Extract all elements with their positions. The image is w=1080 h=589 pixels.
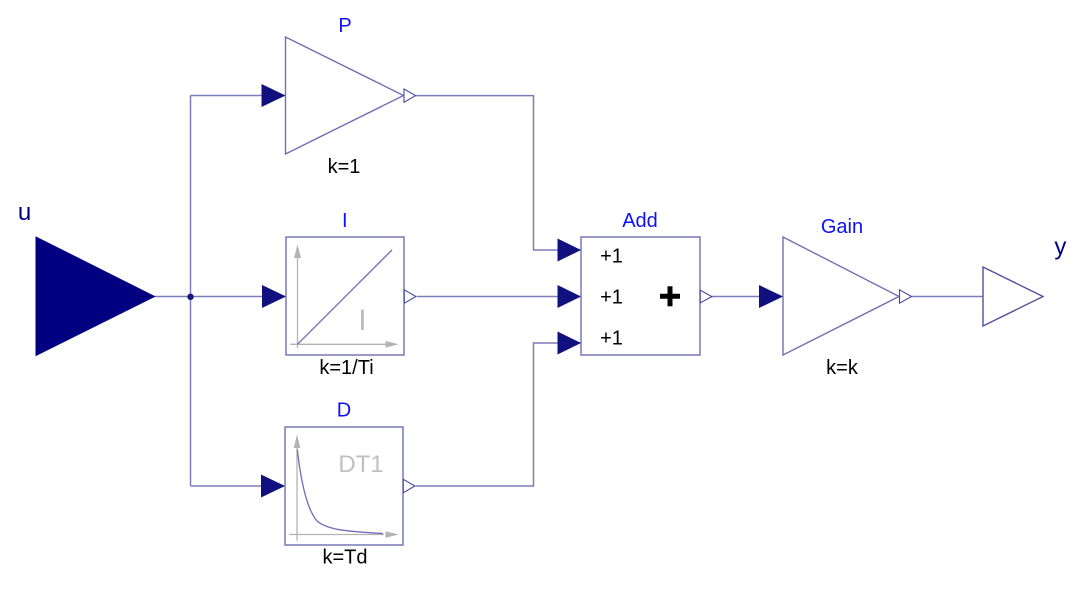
svg-text:+1: +1	[600, 287, 623, 309]
svg-text:k=k: k=k	[826, 357, 859, 379]
svg-text:k=Td: k=Td	[322, 547, 367, 569]
svg-text:+1: +1	[600, 328, 623, 350]
svg-text:DT1: DT1	[338, 451, 383, 478]
svg-text:k=1: k=1	[328, 156, 361, 178]
svg-text:y: y	[1054, 233, 1066, 260]
svg-text:I: I	[342, 210, 348, 232]
svg-text:P: P	[338, 15, 351, 37]
svg-text:u: u	[18, 199, 31, 226]
svg-text:D: D	[337, 400, 351, 422]
svg-text:Gain: Gain	[821, 216, 863, 238]
svg-text:k=1/Ti: k=1/Ti	[319, 357, 373, 379]
svg-text:+1: +1	[600, 246, 623, 268]
svg-text:Add: Add	[622, 210, 658, 232]
